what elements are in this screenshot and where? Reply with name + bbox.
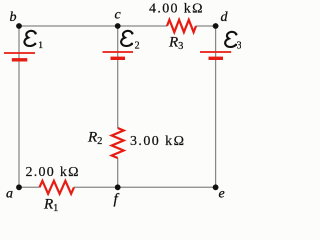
node b [16, 23, 22, 29]
resistor R2 [112, 128, 124, 158]
resistor R3 [167, 20, 196, 32]
wire top b-c [19, 25, 118, 27]
svg-text:d: d [221, 10, 229, 25]
wire left b-a [18, 26, 20, 187]
wire bottom R1 to f [74, 186, 118, 188]
wire top c to R3 [118, 25, 167, 27]
svg-text:e: e [219, 187, 225, 202]
wire right d-e [215, 26, 217, 187]
emf symbol E3 [225, 32, 237, 47]
emf symbol E2 [121, 31, 133, 46]
svg-text:4.00 kΩ: 4.00 kΩ [149, 2, 203, 17]
node a [16, 184, 22, 190]
node d [213, 23, 219, 29]
svg-text:b: b [10, 10, 17, 25]
node f [115, 184, 121, 190]
wire middle R2 to f [117, 158, 119, 187]
wire top R3 to d [196, 25, 216, 27]
svg-text:a: a [6, 187, 13, 202]
resistor R1 [40, 181, 75, 194]
svg-text:3.00 kΩ: 3.00 kΩ [130, 134, 184, 149]
svg-text:1: 1 [38, 41, 43, 51]
svg-text:2.00 kΩ: 2.00 kΩ [26, 165, 79, 180]
node c [115, 23, 121, 29]
battery E3 [200, 52, 231, 58]
wire bottom a to R1 [19, 186, 40, 188]
svg-text:2: 2 [135, 41, 140, 52]
svg-text:c: c [115, 8, 122, 23]
node e [213, 184, 219, 190]
svg-text:3: 3 [237, 41, 241, 52]
emf symbol E1 [24, 31, 36, 46]
wire bottom f-e [118, 186, 216, 188]
wire middle c to R2 [117, 26, 119, 128]
battery E2 [103, 52, 134, 58]
battery E1 [4, 53, 35, 60]
